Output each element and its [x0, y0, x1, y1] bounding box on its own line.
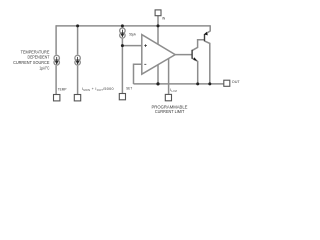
svg-text:TEMPERATURE: TEMPERATURE: [21, 49, 50, 54]
svg-text:CURRENT LIMIT: CURRENT LIMIT: [155, 109, 185, 114]
svg-text:1µA/°C: 1µA/°C: [39, 66, 49, 71]
svg-text:CURRENT SOURCE: CURRENT SOURCE: [13, 60, 49, 65]
svg-text:OUT: OUT: [232, 79, 240, 84]
svg-text:DEPENDENT: DEPENDENT: [28, 55, 50, 60]
svg-text:TEMP: TEMP: [58, 87, 67, 91]
svg-text:50µA: 50µA: [129, 32, 136, 36]
svg-text:SET: SET: [126, 87, 133, 91]
